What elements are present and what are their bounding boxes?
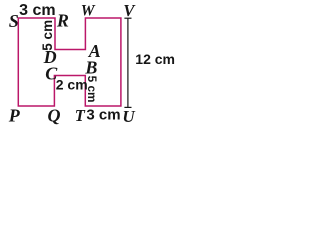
svg-text:S: S	[9, 11, 19, 31]
svg-text:R: R	[56, 11, 69, 31]
svg-text:W: W	[81, 3, 96, 20]
dimension line 12 cm (right side)	[124, 18, 131, 107]
svg-text:5 cm: 5 cm	[85, 76, 99, 103]
svg-text:B: B	[84, 57, 97, 77]
svg-text:12 cm: 12 cm	[135, 51, 175, 67]
svg-text:U: U	[122, 107, 135, 126]
svg-text:2 cm: 2 cm	[56, 77, 88, 93]
svg-text:3 cm: 3 cm	[86, 106, 120, 123]
svg-text:P: P	[8, 106, 21, 126]
svg-text:V: V	[123, 1, 136, 20]
svg-text:3 cm: 3 cm	[19, 2, 55, 19]
svg-text:C: C	[45, 64, 58, 84]
svg-text:Q: Q	[48, 106, 61, 126]
polygon S R D A W V U T B C Q P	[18, 18, 121, 106]
svg-text:T: T	[75, 106, 86, 125]
